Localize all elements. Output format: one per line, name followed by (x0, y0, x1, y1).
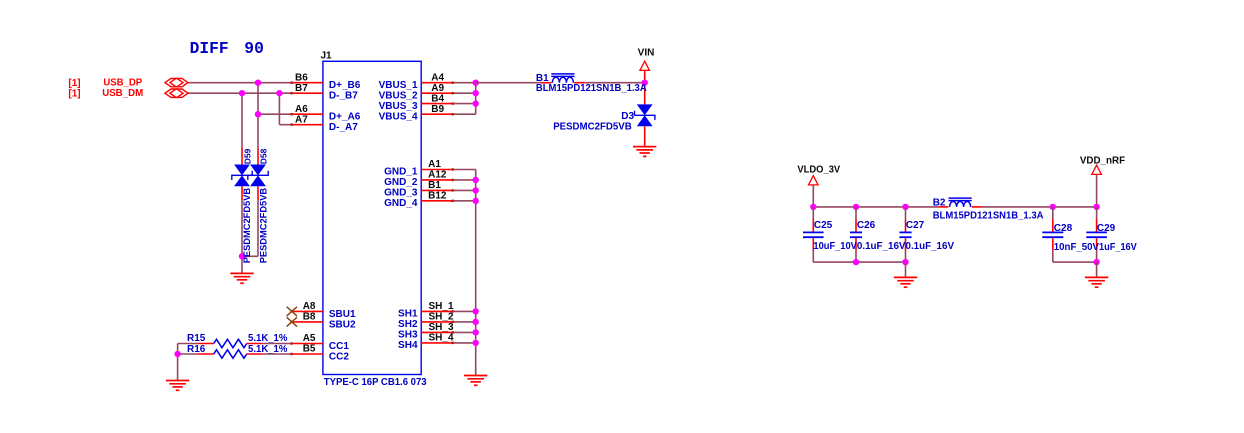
svg-text:0.1uF_16V: 0.1uF_16V (857, 241, 906, 252)
svg-text:CC1: CC1 (329, 341, 349, 352)
svg-text:10nF_50V: 10nF_50V (1054, 242, 1100, 253)
svg-text:USB_DP: USB_DP (103, 78, 142, 89)
svg-text:TYPE-C 16P CB1.6 073: TYPE-C 16P CB1.6 073 (324, 377, 427, 388)
svg-text:VBUS_4: VBUS_4 (379, 112, 418, 123)
svg-text:C25: C25 (814, 220, 833, 231)
svg-text:R16: R16 (187, 344, 206, 355)
svg-text:SH2: SH2 (398, 319, 418, 330)
svg-text:SH_2: SH_2 (429, 311, 454, 322)
svg-text:VLDO_3V: VLDO_3V (797, 164, 840, 175)
svg-text:VBUS_3: VBUS_3 (379, 101, 418, 112)
svg-text:1uF_16V: 1uF_16V (1099, 242, 1137, 253)
svg-text:USB_DM: USB_DM (102, 88, 143, 99)
svg-text:B1: B1 (428, 180, 441, 191)
svg-text:SH_3: SH_3 (429, 322, 454, 333)
svg-text:CC2: CC2 (329, 352, 349, 363)
svg-text:GND_4: GND_4 (384, 198, 418, 209)
svg-text:D3: D3 (621, 111, 634, 122)
svg-text:VIN: VIN (638, 48, 655, 59)
svg-text:D-_A7: D-_A7 (329, 122, 358, 133)
svg-text:C26: C26 (857, 220, 876, 231)
svg-text:B6: B6 (295, 72, 308, 83)
svg-text:J1: J1 (321, 51, 333, 62)
svg-text:SH1: SH1 (398, 308, 418, 319)
svg-text:DIFF: DIFF (190, 39, 229, 58)
svg-text:SH_1: SH_1 (429, 301, 454, 312)
svg-text:SH3: SH3 (398, 329, 418, 340)
svg-text:A9: A9 (431, 83, 444, 94)
svg-text:B8: B8 (303, 312, 316, 323)
svg-text:A4: A4 (431, 73, 444, 84)
svg-text:B7: B7 (295, 83, 308, 94)
svg-text:C28: C28 (1054, 223, 1073, 234)
svg-text:D58: D58 (258, 148, 268, 164)
svg-text:B2: B2 (933, 197, 946, 208)
svg-text:PESDMC2FD5VB: PESDMC2FD5VB (242, 188, 252, 264)
svg-text:GND_2: GND_2 (384, 177, 418, 188)
svg-text:GND_3: GND_3 (384, 187, 418, 198)
svg-text:PESDMC2FD5VB: PESDMC2FD5VB (553, 121, 632, 132)
svg-text:D+_A6: D+_A6 (329, 112, 361, 123)
svg-text:B4: B4 (431, 93, 444, 104)
svg-text:0.1uF_16V: 0.1uF_16V (906, 241, 955, 252)
svg-text:5.1K_1%: 5.1K_1% (248, 333, 288, 344)
svg-text:VBUS_2: VBUS_2 (379, 91, 418, 102)
svg-text:B9: B9 (431, 104, 444, 115)
svg-text:[1]: [1] (68, 89, 80, 100)
svg-text:C27: C27 (906, 220, 925, 231)
svg-text:10uF_10V: 10uF_10V (813, 241, 857, 252)
svg-text:PESDMC2FD5VB: PESDMC2FD5VB (259, 188, 269, 264)
svg-text:SBU2: SBU2 (329, 319, 356, 330)
svg-text:BLM15PD121SN1B_1.3A: BLM15PD121SN1B_1.3A (536, 83, 647, 94)
svg-text:VDD_nRF: VDD_nRF (1080, 155, 1125, 166)
svg-text:BLM15PD121SN1B_1.3A: BLM15PD121SN1B_1.3A (933, 210, 1044, 221)
svg-text:5.1K_1%: 5.1K_1% (248, 344, 288, 355)
svg-text:C29: C29 (1097, 223, 1116, 234)
svg-text:GND_1: GND_1 (384, 166, 418, 177)
svg-text:B5: B5 (303, 344, 316, 355)
svg-text:A5: A5 (303, 333, 316, 344)
svg-text:D59: D59 (242, 148, 252, 164)
svg-text:SH4: SH4 (398, 340, 418, 351)
svg-text:R15: R15 (187, 333, 206, 344)
svg-text:SH_4: SH_4 (429, 332, 454, 343)
svg-text:A1: A1 (428, 159, 441, 170)
svg-text:A8: A8 (303, 301, 316, 312)
svg-text:B12: B12 (428, 190, 447, 201)
svg-text:VBUS_1: VBUS_1 (379, 80, 418, 91)
svg-text:SBU1: SBU1 (329, 309, 356, 320)
svg-text:A12: A12 (428, 170, 447, 181)
svg-text:A7: A7 (295, 114, 308, 125)
svg-text:D+_B6: D+_B6 (329, 80, 361, 91)
svg-text:A6: A6 (295, 104, 308, 115)
svg-text:90: 90 (244, 39, 264, 58)
svg-text:[1]: [1] (68, 78, 80, 89)
svg-text:D-_B7: D-_B7 (329, 91, 358, 102)
